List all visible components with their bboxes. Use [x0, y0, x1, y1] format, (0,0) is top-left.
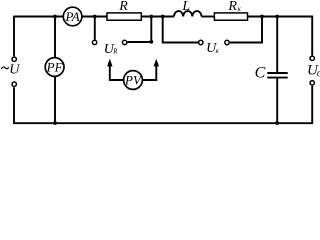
wire bottom rail [13, 122, 313, 124]
meter PV [124, 71, 143, 90]
arrow PV right probe [154, 59, 159, 67]
node junction capacitor top [275, 15, 279, 19]
svg-text:R: R [118, 0, 128, 14]
meter PA [63, 7, 82, 26]
node junction R-L left [149, 15, 153, 19]
wire PV left lead [110, 64, 124, 81]
wire capacitor vertical upper [276, 17, 278, 74]
svg-text:R: R [227, 0, 237, 14]
capacitor C plate bottom [267, 77, 287, 79]
resistor R [107, 13, 141, 20]
terminal source bottom [12, 82, 16, 86]
arrow PV left probe [107, 59, 112, 67]
svg-text:PV: PV [124, 72, 143, 87]
wire top rail left segment [14, 16, 63, 18]
inductor L [174, 11, 202, 16]
capacitor C plate top [267, 72, 287, 74]
svg-text:R: R [112, 49, 118, 56]
svg-text:PA: PA [64, 9, 79, 24]
resistor Rk [214, 13, 247, 20]
wire left vertical lower [13, 87, 15, 124]
wire right vertical lower [311, 86, 313, 124]
wire top rail PA to R [82, 16, 107, 18]
terminal source top [12, 57, 16, 61]
svg-text:L: L [181, 0, 190, 14]
terminal UC bottom [310, 81, 314, 85]
wire UR right horizontal [127, 41, 151, 43]
node junction capacitor bottom [275, 121, 279, 125]
wire UR left vertical [94, 17, 96, 40]
wire PF vertical upper [54, 17, 56, 58]
terminal UK right [225, 40, 229, 44]
svg-text:C: C [255, 64, 266, 81]
node junction after PA [93, 15, 97, 19]
wire UK right horizontal+vertical [230, 17, 262, 43]
svg-text:U: U [9, 62, 20, 77]
wire capacitor vertical lower [276, 78, 278, 123]
terminal UC top [310, 56, 314, 60]
svg-text:PF: PF [46, 59, 64, 74]
label ~U tilde [1, 67, 9, 69]
terminal UK left [199, 40, 203, 44]
wire top rail R to L [141, 16, 174, 18]
wire left vertical upper [13, 16, 15, 57]
wire UR right vertical [150, 17, 152, 43]
meter PF [45, 58, 64, 77]
node junction UR wire corner [149, 40, 153, 44]
wire right vertical upper [311, 16, 313, 56]
wire PF vertical lower [54, 76, 56, 123]
node junction bottom PF [53, 121, 57, 125]
wire UK left vertical+horizontal [163, 17, 199, 43]
node junction R-L right [161, 15, 165, 19]
wire top rail Rk to right corner [248, 16, 314, 18]
terminal UR left [92, 40, 96, 44]
node junction after Rk [260, 15, 264, 19]
wire PV right lead [142, 64, 156, 81]
terminal UR right [122, 40, 126, 44]
wire top rail L to Rk [202, 16, 215, 18]
node junction top PF [53, 15, 57, 19]
